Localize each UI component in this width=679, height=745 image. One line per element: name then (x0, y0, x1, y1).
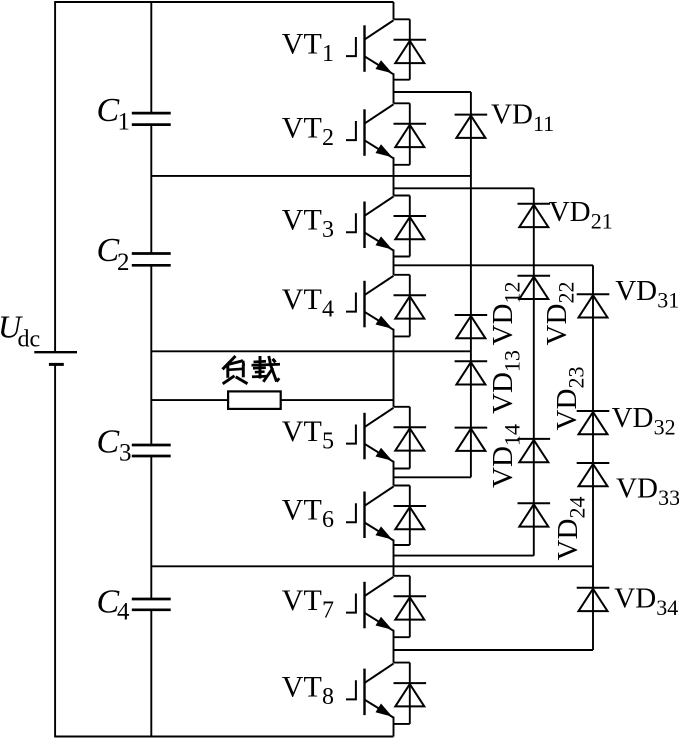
capacitor C4 (132, 599, 171, 610)
svg-text:VD: VD (487, 446, 519, 488)
svg-text:4: 4 (117, 599, 130, 626)
capacitor C1 (132, 113, 171, 125)
capacitor C3 (132, 445, 171, 456)
svg-text:3: 3 (322, 217, 334, 243)
label VT6 (282, 494, 334, 534)
label VT7 (282, 584, 334, 624)
wire node N6 (VT6-VT7) to clamp column 2 (394, 555, 534, 557)
svg-text:34: 34 (656, 595, 678, 620)
diode VD34 (577, 588, 610, 611)
label 载 (load) (252, 356, 281, 382)
svg-text:VT: VT (282, 111, 322, 144)
svg-text:VD: VD (612, 402, 654, 434)
diode VD33 (577, 463, 610, 486)
svg-text:6: 6 (322, 507, 334, 533)
diode VD31 (577, 294, 610, 317)
svg-text:14: 14 (500, 424, 525, 446)
label VD22 (rotated) (541, 282, 579, 346)
wire main rail VT3 emitter to VT4 collector (393, 250, 395, 275)
svg-text:21: 21 (591, 208, 613, 233)
diode VD12 (455, 315, 488, 338)
wire left bus (lower) (54, 364, 56, 737)
anti-parallel diode of VT2 (394, 103, 427, 165)
svg-text:VT: VT (282, 27, 322, 60)
label VT1 (282, 27, 334, 67)
svg-text:11: 11 (533, 111, 554, 136)
svg-text:VD: VD (491, 99, 533, 131)
svg-text:VT: VT (282, 494, 322, 527)
svg-text:C: C (97, 423, 120, 460)
transistor VT7 (IGBT) (346, 577, 394, 631)
diode VD32 (577, 411, 610, 434)
label VD24 (rotated) (552, 497, 590, 561)
anti-parallel diode of VT6 (394, 486, 427, 546)
dc source U_dc (battery) (34, 352, 77, 364)
wire junction J1 (C1-C2) to clamp column 1 (151, 175, 471, 177)
wire main rail VT5 emitter to VT6 collector (393, 461, 395, 486)
svg-text:VD: VD (615, 275, 657, 307)
svg-text:22: 22 (554, 282, 579, 304)
svg-text:VD: VD (487, 304, 519, 346)
wire main rail bottom (393, 717, 395, 737)
svg-text:VT: VT (282, 283, 322, 316)
wire capacitor rail C2 to C3 (150, 265, 152, 445)
anti-parallel diode of VT5 (394, 407, 427, 469)
diode VD13 (455, 361, 488, 384)
anti-parallel diode of VT3 (394, 196, 427, 257)
wire node N5 (VT5-VT6) to clamp column 1 (394, 476, 471, 478)
diode VD23 (518, 439, 551, 462)
svg-text:VT: VT (282, 584, 322, 617)
svg-text:4: 4 (322, 296, 334, 322)
svg-text:1: 1 (322, 41, 334, 67)
svg-text:24: 24 (565, 497, 590, 519)
svg-text:2: 2 (322, 125, 334, 151)
wire junction J2 (midpoint O) to clamp column 1 (151, 350, 471, 352)
wire capacitor rail P to C1 (150, 2, 152, 113)
wire main rail top (393, 2, 395, 19)
label C2 (97, 232, 130, 276)
wire node N3 (VT3-VT4) to clamp column 3 (394, 264, 594, 266)
label VD14 (rotated) (487, 424, 525, 488)
load resistor (负载) (228, 391, 281, 409)
svg-text:VT: VT (282, 415, 322, 448)
label VD11 (491, 99, 554, 137)
wire capacitor rail C3 to C4 (150, 456, 152, 599)
label U_dc (0, 309, 40, 353)
label VD34 (614, 583, 678, 621)
label VT5 (282, 415, 334, 455)
wire main rail VT1 emitter to VT2 collector (393, 73, 395, 103)
svg-text:1: 1 (118, 109, 131, 136)
svg-text:3: 3 (119, 439, 132, 466)
wire node N7 (VT7-VT8) to clamp column 3 (394, 649, 594, 651)
diode VD22 (518, 276, 551, 299)
label C4 (97, 583, 131, 625)
wire main rail VT2 emitter to VT3 collector (393, 157, 395, 195)
label VT8 (282, 671, 334, 711)
transistor VT6 (IGBT) (346, 487, 394, 541)
svg-text:VT: VT (282, 204, 322, 237)
label VT3 (282, 204, 334, 244)
wire clamp column 3 (592, 265, 594, 650)
anti-parallel diode of VT1 (394, 19, 427, 79)
svg-text:VD: VD (614, 583, 656, 615)
svg-text:VT: VT (282, 671, 322, 704)
wire load line (151, 399, 393, 401)
transistor VT2 (IGBT) (346, 104, 394, 158)
wire node N2 (VT2-VT3) to clamp column 2 (394, 187, 534, 189)
svg-text:dc: dc (18, 326, 41, 352)
diode VD21 (518, 204, 551, 227)
svg-text:7: 7 (322, 597, 334, 623)
wire clamp column 1 (470, 92, 472, 477)
wire main rail VT6 emitter to VT7 collector (393, 540, 395, 576)
label VD12 (rotated) (487, 282, 525, 346)
svg-text:8: 8 (322, 684, 334, 710)
label VD23 (rotated) (551, 367, 589, 431)
wire capacitor rail C1 to C2 (150, 125, 152, 254)
wire node N1 (VT1-VT2) to clamp column 1 (394, 91, 471, 93)
wire capacitor rail C4 to N (150, 610, 152, 738)
svg-text:VD: VD (487, 372, 519, 414)
transistor VT5 (IGBT) (346, 408, 394, 462)
label C3 (97, 423, 132, 466)
svg-text:VD: VD (549, 196, 591, 228)
svg-text:5: 5 (322, 428, 334, 454)
transistor VT1 (IGBT) (346, 20, 394, 74)
anti-parallel diode of VT7 (394, 576, 427, 637)
label VD32 (612, 402, 676, 440)
transistor VT3 (IGBT) (346, 197, 394, 251)
svg-text:13: 13 (500, 350, 525, 372)
anti-parallel diode of VT8 (394, 663, 427, 724)
label VD13 (rotated) (487, 350, 525, 414)
svg-text:VD: VD (616, 472, 658, 504)
label VD21 (549, 196, 613, 234)
svg-text:23: 23 (564, 367, 589, 389)
diode VD11 (455, 115, 488, 138)
label VD33 (616, 472, 679, 510)
diode VD14 (455, 428, 488, 451)
wire main rail VT7 emitter to VT8 collector (393, 630, 395, 663)
capacitor C2 (132, 254, 171, 266)
transistor VT4 (IGBT) (346, 276, 394, 330)
wire left bus (upper) (54, 1, 56, 352)
label C1 (97, 92, 131, 136)
diode VD24 (518, 503, 551, 526)
transistor VT8 (IGBT) (346, 664, 394, 718)
svg-text:VD: VD (541, 304, 573, 346)
svg-text:31: 31 (657, 288, 679, 313)
wire main rail VT4 emitter to VT5 collector (393, 329, 395, 407)
svg-text:VD: VD (551, 389, 583, 431)
label VT2 (282, 111, 334, 151)
wire top bus (55, 1, 393, 3)
label VT4 (282, 283, 334, 323)
svg-text:2: 2 (117, 249, 130, 276)
wire bottom bus (55, 736, 393, 738)
label VD31 (615, 275, 679, 313)
wire clamp column 2 (533, 188, 535, 555)
svg-text:VD: VD (552, 519, 584, 561)
wire junction J3 (C3-C4) to clamp column 3 (151, 565, 593, 567)
svg-text:12: 12 (500, 282, 525, 304)
svg-text:32: 32 (654, 415, 676, 440)
label 负 (load) (223, 356, 248, 384)
svg-text:33: 33 (658, 485, 679, 510)
anti-parallel diode of VT4 (394, 275, 427, 337)
svg-text:C: C (97, 92, 120, 129)
